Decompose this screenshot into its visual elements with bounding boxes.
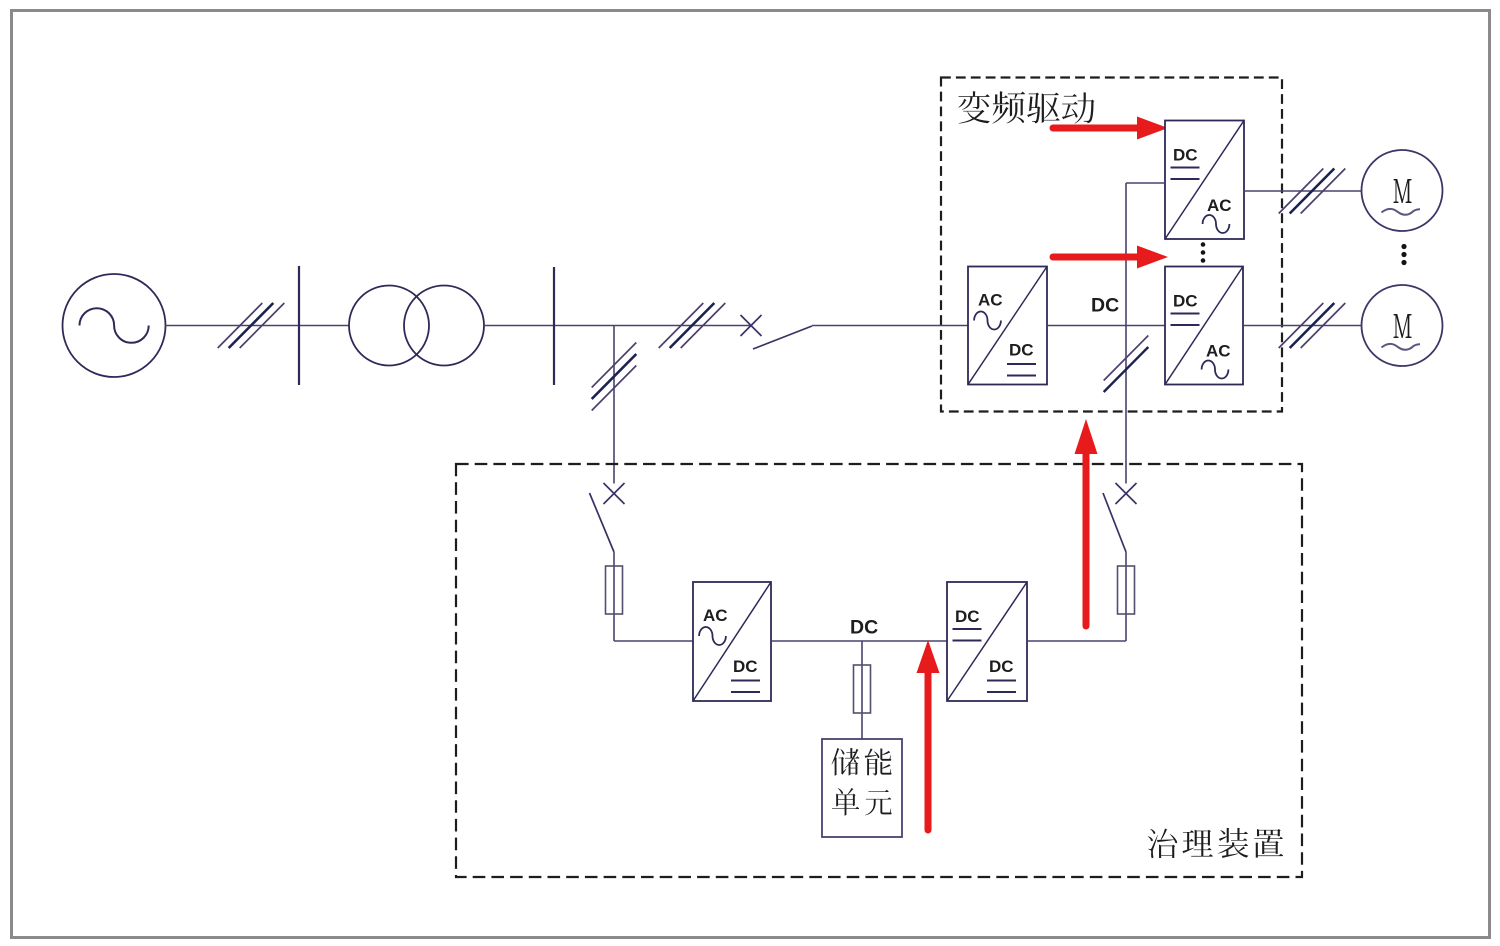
wire transformer to switch <box>484 325 751 327</box>
wire U4 to U5 DC bus <box>771 640 947 642</box>
svg-text:AC: AC <box>1207 196 1232 215</box>
node branch to governance device <box>613 326 615 484</box>
wire switch to VFD <box>812 325 968 327</box>
red arrow flow 2 <box>1053 246 1168 269</box>
svg-text:DC: DC <box>989 657 1014 676</box>
label bian-pin-qu-dong <box>958 91 1094 123</box>
fuse F3 <box>1118 566 1135 614</box>
converter U1 AC/DC rectifier <box>968 267 1047 385</box>
red arrow flow 1 <box>1053 117 1168 140</box>
storage unit box (chu neng dan yuan) <box>822 739 902 837</box>
svg-text:AC: AC <box>978 291 1003 310</box>
label zhi-li-zhuang-zhi <box>1148 828 1283 858</box>
svg-text:DC: DC <box>1173 146 1198 165</box>
AC source G1 <box>63 274 166 377</box>
wire U3 to motor M2 <box>1243 325 1362 327</box>
wire source to transformer <box>166 325 350 327</box>
slashes on motor M1 cable <box>1279 169 1346 214</box>
svg-text:AC: AC <box>703 606 728 625</box>
svg-text:AC: AC <box>1206 342 1231 361</box>
dashed box governance device (zhi li zhuang zhi) <box>456 464 1302 877</box>
wire U1 to U3 <box>1047 325 1165 327</box>
wire U2 to motor M1 <box>1243 190 1362 192</box>
red arrow flow 4 <box>1075 419 1098 626</box>
converter U3 DC/AC bottom <box>1165 267 1243 385</box>
wire U5 to S3 <box>1027 552 1126 641</box>
fuse F2 <box>854 665 871 713</box>
slashes on motor M2 cable <box>1279 303 1346 348</box>
wire DC link riser <box>1126 183 1165 484</box>
dashed box VFD (bian pin qu dong) <box>941 78 1282 412</box>
breaker slashes on branch feeder <box>592 343 637 411</box>
converter U4 AC/DC <box>693 582 771 701</box>
svg-text:DC: DC <box>955 607 980 626</box>
fuse F1 <box>606 566 623 614</box>
wire DC bus to storage <box>861 641 863 739</box>
transformer T1 <box>349 286 484 366</box>
motor M2 <box>1362 285 1443 366</box>
svg-text:DC: DC <box>850 617 878 639</box>
disconnect switch QS1 blade <box>753 326 812 349</box>
converter U2 DC/AC top <box>1165 121 1244 240</box>
breaker slashes on source feeder <box>218 303 285 348</box>
busbar B1 <box>298 266 300 385</box>
switch S2 cross <box>604 483 625 504</box>
red arrow flow 3 <box>917 640 940 830</box>
breaker slashes on main feeder <box>659 303 726 348</box>
wire S2 to AC/DC U4 <box>614 552 693 641</box>
disconnect switch QS1 cross <box>741 315 762 336</box>
busbar B2 <box>553 267 555 385</box>
svg-text:DC: DC <box>1091 295 1119 317</box>
svg-text:DC: DC <box>1009 341 1034 360</box>
switch S3 cross <box>1116 483 1137 504</box>
ellipsis dots between converters <box>1201 242 1206 263</box>
breaker slashes on riser <box>1104 336 1149 393</box>
svg-text:DC: DC <box>1173 292 1198 311</box>
svg-text:DC: DC <box>733 657 758 676</box>
switch S3 blade <box>1103 493 1126 552</box>
motor M1 <box>1362 150 1443 231</box>
switch S2 blade <box>590 493 615 552</box>
ellipsis dots between motors <box>1401 244 1406 265</box>
converter U5 DC/DC <box>947 582 1027 701</box>
